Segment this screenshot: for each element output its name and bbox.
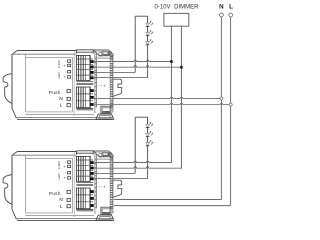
junction dot dim2 (180, 66, 183, 69)
dimmer output line 1 (170, 26, 172, 163)
wire L from driver 1 (93, 103, 229, 104)
svg-text:0-10V DIMMER: 0-10V DIMMER (154, 4, 199, 10)
L junction circle (229, 103, 232, 106)
top driver D1 (3, 16, 181, 119)
N junction circle (220, 97, 223, 100)
bottom driver D2 (3, 117, 181, 220)
N line (114, 17, 221, 200)
N terminal circle (220, 13, 224, 17)
L line (114, 17, 231, 206)
svg-text:L: L (229, 3, 233, 10)
dimmer box (164, 13, 189, 26)
dimmer output line 2 (180, 26, 182, 168)
junction dot dim1 (170, 60, 173, 63)
svg-text:N: N (219, 3, 224, 10)
wire N from driver 1 (93, 97, 220, 98)
L terminal circle (229, 13, 233, 17)
